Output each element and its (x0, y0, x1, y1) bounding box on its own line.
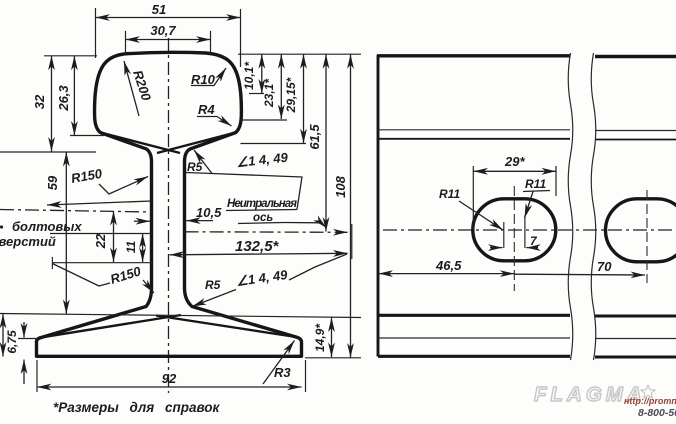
dim 92 ext right (305, 360, 307, 392)
foot slope level ext line (0, 314, 361, 318)
svg-text:26,3: 26,3 (56, 85, 71, 112)
foot middle thin line (378, 337, 676, 340)
dim 46,5 line (379, 273, 515, 275)
R3 leader arrow (263, 341, 295, 385)
R10 leader arrow (191, 68, 226, 86)
side view hole axis dash-dot (383, 229, 676, 231)
dim 10,5 right arrow (186, 220, 213, 222)
svg-text:70: 70 (597, 259, 612, 274)
svg-text:10,5: 10,5 (196, 205, 222, 220)
svg-text:R150: R150 (108, 263, 143, 287)
dim 30,7 line (126, 39, 211, 41)
svg-text:8-800-500: 8-800-500 (638, 407, 676, 419)
label leader arrow to axis (284, 223, 326, 228)
dim 6,75 ext (18, 338, 39, 340)
svg-text:61,5: 61,5 (307, 124, 322, 150)
dim 7 right arrow (526, 247, 538, 249)
dim 29,15 ext (241, 143, 307, 145)
rail vertical centre axis (168, 38, 170, 393)
svg-text:29*: 29* (504, 154, 525, 169)
dim 61,5 line (325, 54, 327, 231)
head top ext line right (238, 53, 361, 55)
dim 29 ext right (555, 166, 557, 196)
dim 14,9 line (331, 318, 333, 358)
ext line under label (50, 233, 152, 235)
svg-text:Неитральная: Неитральная (227, 198, 297, 210)
R150 upper leader (99, 177, 148, 195)
dim 51 ext right (240, 9, 242, 67)
svg-text:46,5: 46,5 (435, 258, 462, 273)
R5 lower arrow (192, 290, 236, 307)
dim 10,1 ext (249, 93, 264, 95)
left edge dim line (2, 314, 4, 357)
dim 51 ext left (95, 8, 97, 58)
hole centre tick left (503, 222, 505, 248)
svg-text:R5: R5 (187, 160, 203, 174)
svg-text:6,75: 6,75 (5, 330, 19, 354)
svg-text:нttp://promпр: нttp://promпр (624, 396, 676, 406)
dim 10,1 line (261, 54, 263, 93)
svg-text:14,9*: 14,9* (313, 323, 327, 352)
break wavy line 1 (568, 53, 573, 360)
slope label upper leader (212, 174, 302, 210)
dim 26,3 line (73, 56, 75, 136)
dim 26,3 ext (70, 135, 104, 137)
side view bottom edge (378, 355, 676, 359)
R150 lower zigzag (52, 264, 110, 287)
svg-text:R10: R10 (191, 72, 216, 87)
hole centre tick right (524, 216, 526, 248)
rail cross-section outline (37, 52, 302, 356)
svg-text:7: 7 (530, 234, 538, 248)
dim 23,1 line (280, 54, 282, 119)
neutral axis dash-dot line with arrow (185, 231, 348, 234)
side view left edge (377, 55, 380, 357)
dim 70 line (514, 273, 645, 276)
svg-text:11: 11 (124, 240, 138, 253)
label underline1 (226, 210, 297, 211)
foot top left slope to centre (42, 315, 181, 337)
dim 30,7 ext left (125, 31, 127, 52)
dim 11 line (142, 234, 144, 263)
svg-text:32: 32 (32, 94, 47, 109)
head top ext line left (44, 55, 97, 57)
star mark (641, 385, 655, 398)
R5 upper underline (186, 173, 212, 174)
svg-text:∠1 4, 49: ∠1 4, 49 (236, 150, 289, 170)
dim 32 line (51, 56, 53, 152)
svg-text:30,7: 30,7 (150, 23, 176, 38)
dim 29 ext left (472, 166, 474, 230)
R11 right leader (525, 192, 534, 219)
dim 92 ext left (36, 360, 38, 392)
dim 30,7 ext right (210, 31, 212, 52)
svg-text:болтовых: болтовых (12, 219, 82, 234)
svg-text:R11: R11 (525, 177, 546, 191)
tick (51, 257, 53, 269)
svg-text:отверстий: отверстий (0, 234, 56, 249)
svg-text:29,15*: 29,15* (284, 76, 298, 113)
svg-text:∠1 4, 49: ∠1 4, 49 (235, 267, 289, 289)
head lower line solid (378, 138, 676, 141)
svg-text:R150: R150 (70, 166, 104, 186)
svg-text:R3: R3 (274, 365, 291, 380)
dim 23,1 ext (241, 119, 288, 121)
head underside left slope to centre (100, 132, 180, 153)
bolt hole 1 (473, 199, 556, 261)
foot bottom ext right (305, 357, 361, 359)
dim 29 line (474, 170, 557, 172)
head bottom level ext line (0, 151, 96, 153)
dim 108 line (350, 54, 352, 357)
R11 left leader (459, 201, 503, 230)
break ext vertical (351, 224, 353, 259)
svg-text:R11: R11 (439, 187, 460, 201)
head lower line thin (378, 129, 676, 132)
foot top thick line (378, 314, 676, 318)
dim 132,5 line (170, 253, 348, 255)
bolt hole 1 centre dash (513, 186, 515, 291)
head underside right slope to centre (157, 132, 236, 153)
R11 right underline (523, 191, 550, 192)
R200 leader arrow (124, 61, 139, 116)
foot top right slope to centre (156, 316, 296, 338)
svg-text:R4: R4 (198, 102, 215, 117)
dim 7 left arrow (490, 247, 503, 249)
dim 10,5 left arrow (134, 220, 150, 222)
svg-text:22: 22 (93, 233, 108, 249)
label underline2 (238, 223, 284, 224)
FLAGMA watermark (534, 383, 676, 419)
side view top edge (377, 54, 676, 58)
svg-text:132,5*: 132,5* (235, 238, 280, 255)
svg-text:10,1*: 10,1* (242, 61, 256, 90)
bolt hole 2 (606, 199, 676, 262)
lower zigzag to 132,5 (289, 254, 347, 280)
bolt-holes axis dash-dot line (0, 210, 152, 213)
dim 51 line (96, 17, 241, 19)
svg-text:92: 92 (162, 371, 177, 386)
dim 59 line (65, 152, 67, 314)
dim 29,15 line (303, 54, 305, 143)
svg-text:R5: R5 (205, 278, 221, 292)
R150 lower arrow (143, 280, 154, 293)
svg-text:*Размеры для справок: *Размеры для справок (53, 400, 221, 415)
bolt hole 2 centre dash (646, 190, 648, 283)
dim 92 line (37, 386, 302, 388)
lower ext line with tick (52, 262, 151, 264)
R4 leader arrow (197, 117, 232, 127)
dim 6,75 arrows (23, 322, 25, 338)
break wavy line 2 (591, 53, 596, 360)
dim 22 line (113, 211, 115, 262)
svg-text:23,1*: 23,1* (262, 78, 276, 108)
svg-text:108: 108 (333, 175, 348, 197)
bolt axis leader arrow (47, 201, 152, 205)
svg-text:59: 59 (45, 175, 60, 190)
R5 upper arrow (194, 150, 212, 174)
svg-text:51: 51 (152, 2, 166, 17)
